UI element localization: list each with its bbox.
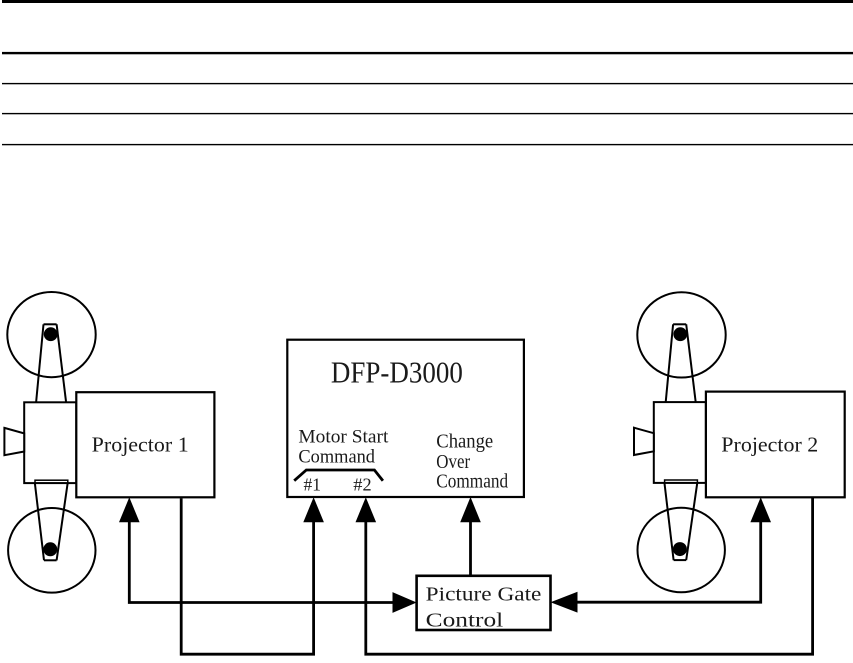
svg-text:Projector 2: Projector 2	[721, 432, 818, 456]
third rule	[2, 83, 853, 84]
svg-text:Picture Gate: Picture Gate	[426, 584, 542, 606]
svg-text:Over: Over	[436, 451, 470, 473]
arrow up into DFP #2	[356, 497, 377, 522]
wire projector2 to DFP #2	[366, 497, 813, 654]
projector 1 bottom film strand left	[35, 484, 44, 561]
projector 1 bottom film strand right	[57, 484, 68, 561]
wire picture gate control to DFP change over	[469, 520, 472, 576]
fourth rule	[2, 113, 853, 114]
projector 2 film gate slot	[665, 480, 698, 483]
projector 1 bottom reel hub	[43, 542, 57, 556]
svg-text:Projector 1: Projector 1	[92, 433, 189, 457]
wire projector1 to picture gate control	[129, 520, 394, 603]
projector 1 lens	[4, 428, 24, 455]
arrow up into projector 1	[119, 497, 140, 522]
arrow up into projector 2	[750, 497, 771, 522]
svg-text:Command: Command	[436, 471, 508, 493]
projector 1 bottom reel	[8, 508, 95, 593]
projector 1 film compartment	[24, 402, 76, 483]
projector 2 top reel hub	[673, 327, 687, 341]
arrow left into picture gate control	[551, 592, 578, 613]
svg-text:Change: Change	[436, 431, 493, 453]
projector 1 body box	[76, 392, 214, 497]
projector 2 body box	[706, 392, 845, 498]
svg-text:DFP-D3000: DFP-D3000	[331, 354, 463, 389]
fifth rule	[2, 144, 853, 145]
projector 2 lens	[634, 428, 654, 455]
arrow right into picture gate control	[393, 592, 417, 613]
picture gate control box	[417, 576, 551, 630]
projector 2 top film strand left	[666, 324, 673, 402]
motor start bracket	[294, 470, 383, 481]
projector 2 bottom film strand right	[686, 483, 697, 560]
svg-text:#2: #2	[353, 474, 371, 494]
projector 1 top film strand right	[57, 324, 67, 402]
wire projector1 to DFP #1	[181, 498, 313, 654]
projector 2 top film strand right	[686, 324, 696, 402]
projector 1 top reel hub	[44, 327, 58, 341]
top thick rule	[2, 0, 853, 3]
arrow up into DFP change over	[460, 497, 481, 522]
projector 2 film compartment	[654, 402, 706, 483]
projector 1 top reel	[7, 292, 95, 377]
projector 1 top film wrap	[44, 323, 57, 325]
arrow up into DFP #1	[303, 497, 324, 522]
projector 2 top reel	[637, 292, 725, 377]
projector 2 bottom film strand left	[665, 483, 674, 560]
svg-text:Command: Command	[298, 446, 375, 467]
svg-text:#1: #1	[304, 474, 321, 494]
DFP-D3000 controller box	[287, 340, 524, 497]
projector 2 top film wrap	[673, 323, 686, 325]
projector 1 bottom film wrap	[44, 559, 57, 561]
second rule	[2, 52, 853, 54]
svg-text:Control: Control	[426, 609, 504, 631]
svg-text:Motor Start: Motor Start	[298, 426, 389, 447]
projector 2 bottom film wrap	[674, 559, 687, 561]
projector 2 bottom reel	[638, 508, 725, 593]
projector 1 film gate slot	[35, 480, 68, 483]
projector 2 bottom reel hub	[673, 542, 687, 556]
wire projector2 to picture gate control	[577, 520, 761, 602]
projector 1 top film strand left	[36, 324, 43, 402]
